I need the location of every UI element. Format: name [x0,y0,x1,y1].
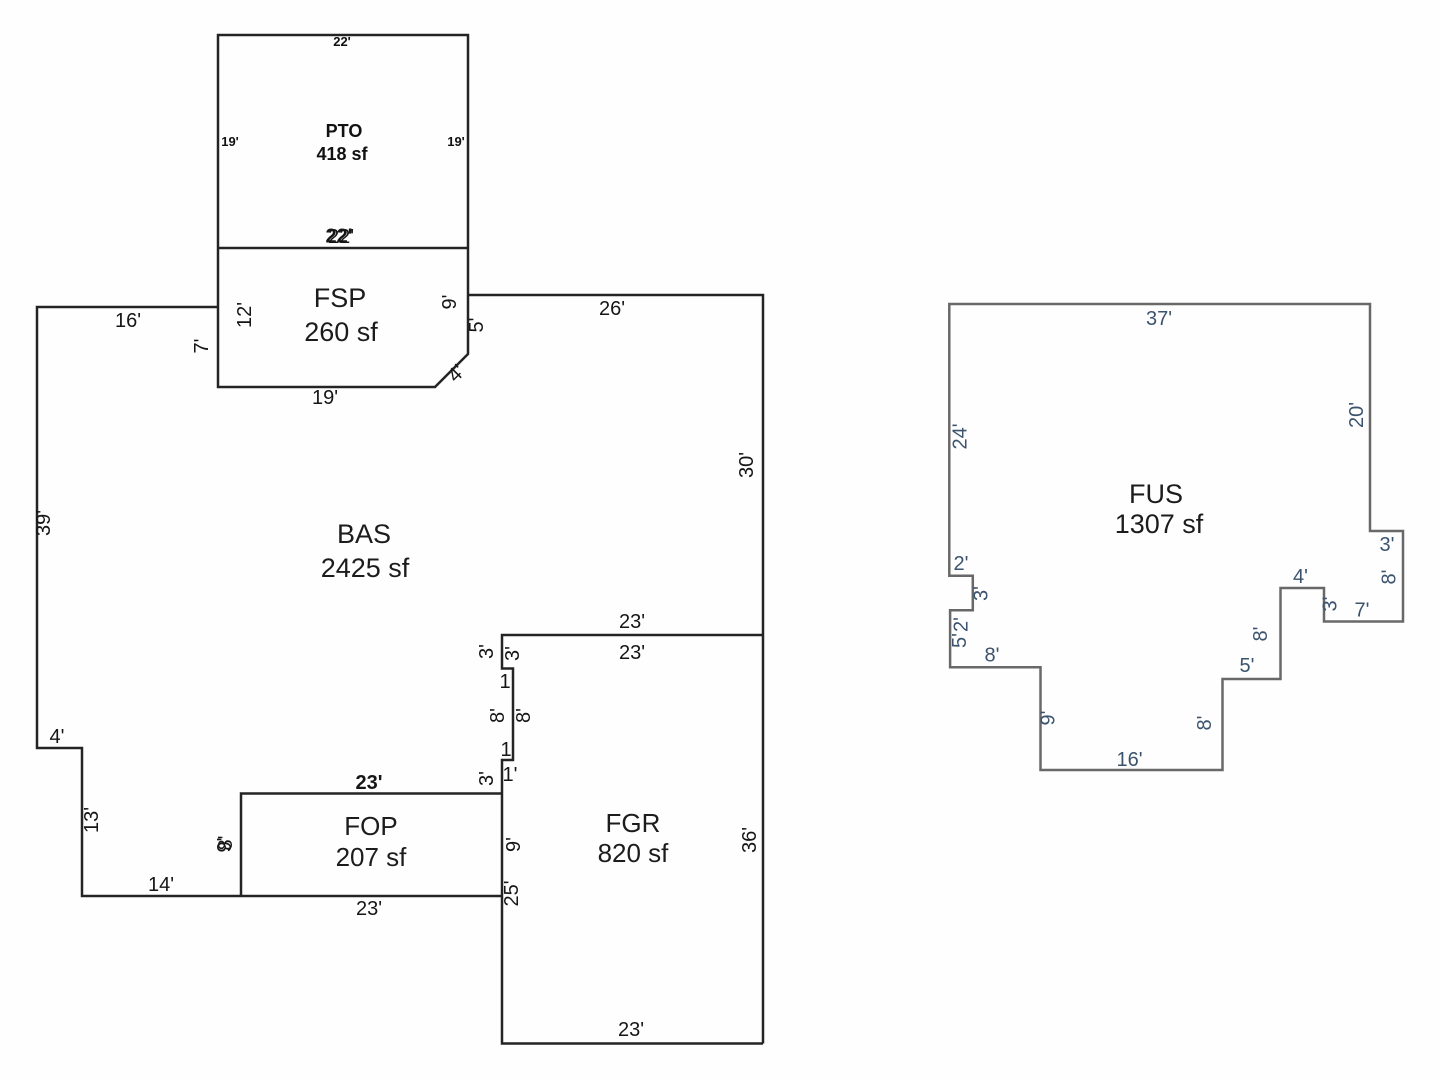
svg-text:3': 3' [476,771,498,786]
svg-text:FSP: FSP [314,283,367,313]
svg-text:8': 8' [487,708,509,723]
svg-text:8': 8' [1194,716,1216,731]
svg-text:7': 7' [191,339,213,354]
svg-text:37': 37' [1146,308,1172,330]
wall FOP left + top [241,794,502,897]
svg-text:23': 23' [355,772,382,794]
svg-text:23': 23' [618,1019,644,1041]
svg-text:19': 19' [221,134,239,149]
svg-text:2': 2' [951,617,973,632]
svg-text:23': 23' [619,642,645,664]
svg-text:22': 22' [325,226,352,248]
svg-text:16': 16' [115,310,141,332]
svg-text:4': 4' [1293,566,1308,588]
svg-text:1': 1' [503,764,518,786]
svg-text:8': 8' [985,645,1000,667]
svg-text:FOP: FOP [344,811,397,841]
svg-text:23': 23' [619,611,645,633]
svg-text:PTO: PTO [326,121,363,141]
svg-text:13': 13' [81,807,103,833]
svg-text:2': 2' [954,553,969,575]
svg-text:19': 19' [312,387,338,409]
svg-text:9': 9' [1038,711,1060,726]
svg-text:5': 5' [949,633,971,648]
svg-text:39': 39' [33,510,55,536]
svg-text:4': 4' [50,726,65,748]
svg-text:260 sf: 260 sf [304,317,378,347]
svg-text:19': 19' [447,134,465,149]
svg-text:2425 sf: 2425 sf [321,553,410,583]
svg-text:12': 12' [234,302,256,328]
svg-text:8': 8' [1250,627,1272,642]
svg-text:1: 1 [500,739,511,761]
svg-text:36': 36' [739,827,761,853]
svg-text:16': 16' [1116,749,1142,771]
svg-text:820 sf: 820 sf [598,838,670,868]
svg-text:30': 30' [736,452,758,478]
svg-text:5': 5' [1240,655,1255,677]
svg-text:3': 3' [502,646,524,661]
svg-text:BAS: BAS [337,519,391,549]
svg-text:3': 3' [476,644,498,659]
svg-text:FGR: FGR [606,808,661,838]
svg-text:22': 22' [333,34,351,49]
svg-text:207 sf: 207 sf [336,842,408,872]
svg-text:9': 9' [439,295,461,310]
svg-text:9': 9' [503,837,525,852]
wall divider PTO/FSP (22') [218,247,468,250]
svg-text:8': 8' [1379,570,1401,585]
svg-text:23': 23' [356,898,382,920]
svg-text:5': 5' [466,318,488,333]
svg-text:26': 26' [599,298,625,320]
svg-text:418 sf: 418 sf [316,144,368,164]
svg-text:3': 3' [1380,534,1395,556]
wall BAS top-right 26' and right wall down [468,295,763,1044]
wall outline FUS [949,304,1403,770]
wall BAS left: 16' top, 39' left, 4' step, 13' wall, bottom to FGR [37,307,502,896]
svg-text:8': 8' [215,836,237,851]
svg-text:24': 24' [950,423,972,449]
svg-text:25': 25' [501,880,523,906]
svg-text:3': 3' [1320,597,1342,612]
svg-text:1: 1 [499,671,510,693]
svg-text:7': 7' [1355,600,1370,622]
svg-text:8': 8' [513,708,535,723]
svg-text:20': 20' [1346,402,1368,428]
wall outline PTO+FSP [218,35,468,387]
svg-text:14': 14' [148,874,174,896]
svg-text:FUS: FUS [1129,479,1183,509]
svg-text:1307 sf: 1307 sf [1115,509,1204,539]
svg-text:3': 3' [971,586,993,601]
wall FGR top, left steps, bottom [502,635,763,1044]
